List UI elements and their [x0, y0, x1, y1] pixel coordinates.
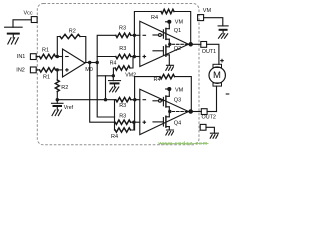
svg-text:OUT2: OUT2: [202, 115, 216, 121]
svg-text:Q1: Q1: [174, 28, 181, 34]
svg-text:R2: R2: [69, 29, 76, 35]
svg-text:IN2: IN2: [16, 68, 25, 74]
svg-text:Q2: Q2: [174, 46, 181, 52]
svg-text:R3: R3: [119, 26, 126, 32]
svg-text:R2: R2: [61, 85, 68, 91]
svg-text:M: M: [213, 70, 221, 81]
svg-text:VM2: VM2: [125, 73, 136, 79]
svg-text:Vcc: Vcc: [24, 10, 33, 16]
svg-text:R4: R4: [151, 15, 158, 21]
svg-text:R4: R4: [111, 134, 118, 140]
svg-text:www.cndzz.com: www.cndzz.com: [158, 141, 209, 147]
svg-text:R4: R4: [110, 60, 117, 66]
svg-text:R1: R1: [43, 74, 50, 80]
svg-text:Vref: Vref: [64, 105, 74, 111]
svg-text:OUT1: OUT1: [202, 49, 216, 55]
svg-text:VM: VM: [175, 20, 184, 26]
svg-text:M0: M0: [85, 67, 93, 73]
svg-text:Q3: Q3: [174, 98, 181, 104]
svg-text:R3: R3: [119, 114, 126, 120]
svg-text:R1: R1: [42, 47, 49, 53]
svg-text:VM: VM: [175, 87, 184, 93]
svg-text:VM: VM: [203, 8, 212, 14]
svg-text:IN1: IN1: [17, 54, 26, 60]
svg-text:R4: R4: [154, 77, 161, 83]
svg-text:R3: R3: [119, 103, 126, 109]
svg-text:R3: R3: [119, 46, 126, 52]
svg-text:Q4: Q4: [174, 121, 181, 127]
